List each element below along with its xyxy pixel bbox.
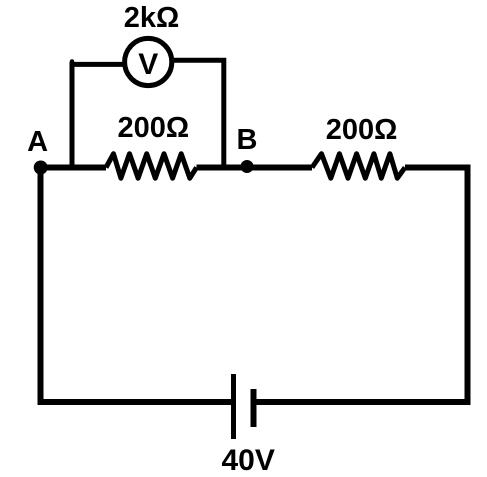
svg-text:V: V — [138, 48, 158, 81]
svg-text:40V: 40V — [222, 444, 275, 477]
svg-text:B: B — [237, 124, 258, 156]
svg-text:200Ω: 200Ω — [117, 112, 189, 144]
svg-text:A: A — [27, 126, 48, 158]
svg-text:2kΩ: 2kΩ — [124, 2, 180, 34]
svg-text:200Ω: 200Ω — [326, 114, 398, 146]
